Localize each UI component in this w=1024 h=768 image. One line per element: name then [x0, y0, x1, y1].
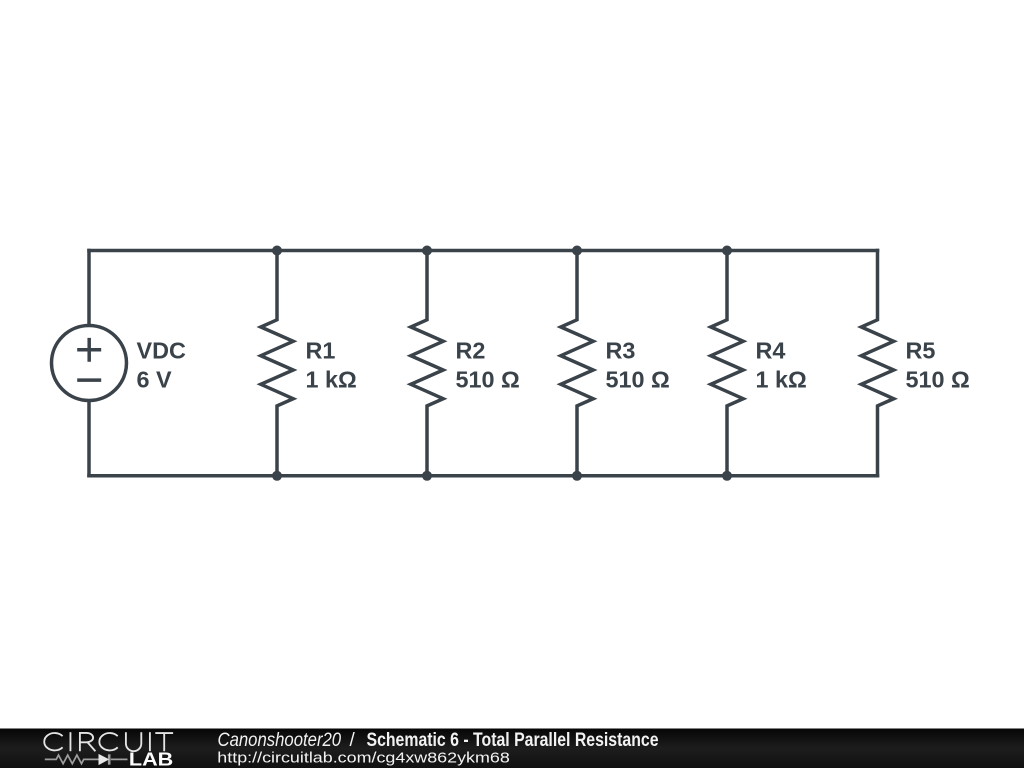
svg-text:VDC: VDC [137, 338, 186, 364]
voltage source VDC [52, 326, 127, 401]
svg-text:R3: R3 [606, 338, 636, 364]
resistor R4 [711, 251, 743, 476]
logo CIRCUIT wordmark [44, 732, 173, 751]
svg-text:510 Ω: 510 Ω [456, 366, 520, 392]
resistor R2 [411, 251, 443, 476]
svg-text:510 Ω: 510 Ω [906, 366, 970, 392]
junction bottom node 4 [722, 471, 732, 481]
svg-text:1 kΩ: 1 kΩ [306, 366, 357, 392]
svg-text:LAB: LAB [129, 750, 173, 768]
wire VDC bottom lead [87, 401, 91, 476]
svg-text:/: / [350, 730, 356, 751]
svg-text:R1: R1 [306, 338, 336, 364]
svg-text:http://circuitlab.com/cg4xw862: http://circuitlab.com/cg4xw862ykm68 [217, 749, 510, 766]
svg-text:R4: R4 [756, 338, 786, 364]
junction top node 3 [572, 246, 582, 256]
resistor R3 [561, 251, 593, 476]
svg-text:1 kΩ: 1 kΩ [756, 366, 807, 392]
wire top rail [89, 249, 878, 253]
wire bottom rail [89, 474, 878, 478]
junction top node 4 [722, 246, 732, 256]
svg-text:6 V: 6 V [137, 366, 173, 392]
junction bottom node 1 [272, 471, 282, 481]
resistor R1 [261, 251, 293, 476]
logo resistor-diode squiggle [45, 754, 128, 764]
resistor R5 [861, 251, 893, 476]
junction bottom node 3 [572, 471, 582, 481]
logo diode triangle [99, 754, 110, 765]
svg-text:Canonshooter20: Canonshooter20 [218, 730, 342, 751]
svg-text:R5: R5 [906, 338, 936, 364]
svg-text:510 Ω: 510 Ω [606, 366, 670, 392]
junction top node 1 [272, 246, 282, 256]
svg-text:Schematic 6 - Total Parallel R: Schematic 6 - Total Parallel Resistance [367, 730, 659, 751]
junction bottom node 2 [422, 471, 432, 481]
svg-text:R2: R2 [456, 338, 486, 364]
footer bar [0, 729, 1024, 768]
junction top node 2 [422, 246, 432, 256]
wire VDC top lead [87, 251, 91, 326]
